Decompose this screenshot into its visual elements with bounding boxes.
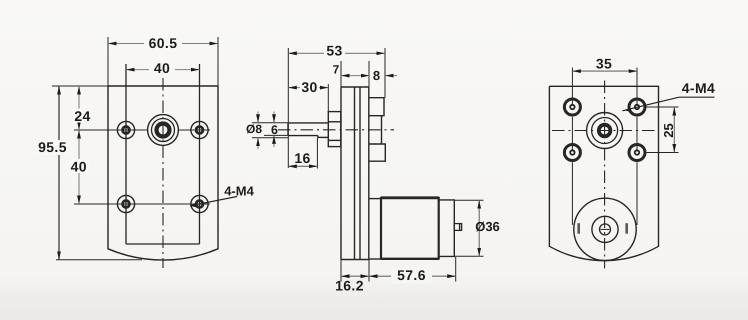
- top-left extension line: [52, 85, 108, 87]
- extension line shaft tip: [287, 48, 289, 168]
- leader arrowhead left view: [190, 203, 197, 207]
- dim 40 left vertical: [69, 130, 90, 204]
- svg-text:95.5: 95.5: [38, 139, 67, 155]
- bolt line left: [571, 68, 573, 106]
- svg-text:35: 35: [596, 55, 612, 71]
- motor neck: [369, 199, 381, 259]
- shaft center line: [278, 129, 394, 131]
- dim 53: [288, 42, 385, 60]
- dim 16: [288, 137, 317, 168]
- dim 40 top: [126, 60, 200, 76]
- plate outline: [108, 86, 218, 260]
- svg-text:53: 53: [326, 42, 342, 58]
- bottom extension line: [56, 259, 142, 261]
- svg-text:25: 25: [661, 123, 676, 137]
- label 4-M4 right view: [623, 80, 716, 111]
- svg-text:Ø36: Ø36: [475, 219, 500, 234]
- svg-text:24: 24: [74, 108, 90, 124]
- svg-text:40: 40: [71, 159, 87, 175]
- shaft boss back: [587, 113, 623, 149]
- inner mounting lines: [125, 64, 127, 244]
- dim 7: [333, 61, 370, 87]
- hole back top-left: [564, 99, 580, 115]
- hole back bottom-left: [564, 145, 580, 161]
- svg-text:16: 16: [294, 150, 310, 166]
- brush mark right: [625, 223, 628, 234]
- center vertical dash-dot: [604, 81, 606, 269]
- dim 35: [572, 55, 637, 71]
- svg-text:Ø8: Ø8: [246, 122, 262, 136]
- dim dia36: [454, 200, 499, 256]
- dim 8: [373, 68, 397, 83]
- motor end cap: [439, 200, 455, 257]
- dim 25: [661, 107, 676, 153]
- svg-text:8: 8: [373, 68, 380, 83]
- motor circle center tick: [601, 228, 610, 230]
- label 4-M4 left view: [190, 184, 255, 206]
- output shaft: [288, 123, 328, 137]
- svg-text:60.5: 60.5: [149, 35, 178, 51]
- svg-text:7: 7: [333, 63, 340, 77]
- hole bottom-right: [191, 195, 208, 212]
- dim 95.5: [35, 86, 72, 260]
- svg-text:16.2: 16.2: [335, 278, 364, 294]
- extension line gearbox back top: [384, 48, 386, 98]
- motor rear stub: [454, 224, 461, 231]
- dim 6 arrows: [264, 112, 288, 148]
- svg-text:4-M4: 4-M4: [224, 184, 254, 199]
- hole row center lines: [74, 129, 148, 131]
- dim 24: [72, 86, 93, 130]
- hole back top-right: [629, 99, 645, 115]
- center horizontal dash-dot: [552, 130, 658, 132]
- hole back bottom-right: [629, 145, 645, 161]
- top extension lines: [107, 37, 109, 86]
- dim 25 extension lines: [647, 106, 679, 108]
- motor circle: [574, 198, 636, 260]
- step middle: [381, 116, 383, 144]
- plate outline: [549, 86, 658, 260]
- bolt line right: [636, 68, 638, 106]
- shaft boss front: [148, 115, 179, 146]
- extension line hub face: [327, 84, 329, 112]
- brush mark left: [577, 223, 580, 234]
- mounting tab upper: [369, 98, 384, 116]
- dim 60.5: [108, 35, 218, 51]
- hole top-right: [191, 121, 208, 138]
- svg-text:4-M4: 4-M4: [682, 80, 716, 96]
- dim 16.2: [335, 260, 369, 294]
- mounting tab lower: [369, 144, 386, 161]
- gearbox body: [341, 87, 369, 260]
- svg-text:30: 30: [301, 79, 317, 95]
- svg-text:40: 40: [154, 60, 170, 76]
- shaft hub: [328, 112, 341, 147]
- svg-text:6: 6: [271, 123, 278, 137]
- dim 57.6: [369, 257, 456, 284]
- center vertical dash-dot: [162, 78, 164, 268]
- dim 30: [288, 79, 328, 95]
- dia 8 label and arrows: [246, 112, 288, 150]
- hole top-left: [117, 121, 134, 138]
- leader arrowhead right view: [625, 108, 632, 112]
- svg-text:57.6: 57.6: [397, 267, 426, 283]
- hole bottom-left: [117, 195, 134, 212]
- motor body side: [381, 197, 439, 260]
